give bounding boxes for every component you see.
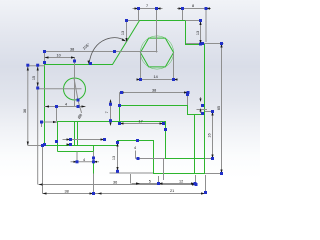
svg-text:10: 10 <box>57 54 61 58</box>
svg-text:5: 5 <box>149 180 151 184</box>
svg-text:16: 16 <box>208 133 212 137</box>
svg-text:38: 38 <box>70 48 74 52</box>
svg-text:7: 7 <box>146 4 148 8</box>
svg-text:4: 4 <box>134 146 136 150</box>
svg-text:105°: 105° <box>82 42 91 50</box>
svg-text:38: 38 <box>65 190 69 194</box>
svg-text:12: 12 <box>179 180 183 184</box>
svg-text:8: 8 <box>192 4 194 8</box>
svg-text:13: 13 <box>196 31 200 35</box>
svg-text:36: 36 <box>23 109 27 113</box>
svg-text:4: 4 <box>65 103 67 107</box>
svg-text:36: 36 <box>113 181 117 185</box>
svg-text:65: 65 <box>217 106 221 110</box>
svg-text:17: 17 <box>139 120 143 124</box>
svg-text:Ø8: Ø8 <box>77 113 83 119</box>
svg-text:13: 13 <box>121 31 125 35</box>
svg-text:15: 15 <box>32 76 36 80</box>
svg-text:4: 4 <box>83 158 85 162</box>
svg-text:14: 14 <box>154 75 158 79</box>
svg-text:7: 7 <box>105 111 109 113</box>
svg-text:21: 21 <box>170 189 174 193</box>
svg-text:38: 38 <box>152 89 156 93</box>
svg-text:13: 13 <box>112 156 116 160</box>
